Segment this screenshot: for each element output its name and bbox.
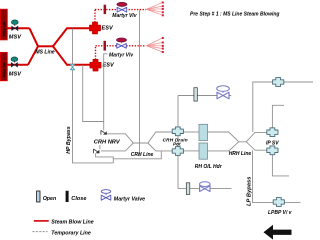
drain pot CRH 2 <box>172 147 183 156</box>
wire HP bypass spray drop <box>83 65 104 122</box>
check valve CRH NRV1 <box>101 130 107 134</box>
wire CRH blowdown <box>113 151 161 159</box>
svg-text:RH O/L Hdr: RH O/L Hdr <box>195 164 223 170</box>
svg-text:MSV: MSV <box>9 35 22 41</box>
HP bypass valve <box>70 64 74 69</box>
wire MS line common header <box>38 45 53 47</box>
svg-text:ESV: ESV <box>102 25 114 31</box>
legend temporary line <box>33 231 48 233</box>
svg-text:HRH Line: HRH Line <box>229 151 252 157</box>
wire CRH lower east <box>148 143 173 151</box>
wire MS line unit2 horizontal <box>7 64 28 66</box>
drain pot CRH 1 <box>172 127 183 136</box>
butterfly valve middle row <box>217 86 230 99</box>
LPBP valve <box>273 198 284 207</box>
ESV1 stop valve <box>90 22 101 34</box>
wire CRH lower to RH header <box>183 150 199 152</box>
wire LP bypass drop <box>253 150 274 202</box>
wire middle blowdown row <box>178 95 231 97</box>
wire HRH drain header <box>253 82 313 132</box>
wire NRV2 loop <box>96 153 114 163</box>
legend open symbol <box>37 191 40 202</box>
IP SV 2 <box>267 146 278 155</box>
ESV2 stop valve <box>90 59 101 71</box>
svg-text:Martyr Vlv: Martyr Vlv <box>109 52 134 58</box>
wire MS line unit2 diagonal up <box>28 46 38 65</box>
blow-out fan 2 <box>146 37 164 53</box>
wire bottom blowdown row <box>178 188 231 190</box>
svg-text:CRH Line: CRH Line <box>131 152 154 158</box>
wire IPSV top stub <box>272 105 284 128</box>
svg-text:ESV: ESV <box>103 63 115 69</box>
wire CRH lower <box>101 143 133 151</box>
wire HRH lower east <box>246 142 267 150</box>
wire CRH upper to RH header <box>183 131 199 133</box>
wire HRH lower <box>208 142 239 151</box>
wire IPSV bottom drop <box>272 155 289 176</box>
spool open middle row <box>194 88 197 101</box>
butterfly valve bottom row <box>200 182 211 192</box>
svg-text:IP SV: IP SV <box>266 140 279 146</box>
wire NRV2 stub <box>99 145 101 149</box>
martyr valve 1 <box>117 2 127 12</box>
svg-text:Close: Close <box>71 196 86 202</box>
svg-text:Final SH: Final SH <box>3 21 7 36</box>
valve MSV2 <box>11 57 18 67</box>
svg-text:Temporary Line: Temporary Line <box>51 231 91 237</box>
close spool 2 <box>104 41 107 51</box>
svg-text:Martyr Valve: Martyr Valve <box>114 197 145 203</box>
wire drain pot riser <box>177 96 179 189</box>
wire silencer riser <box>139 10 141 157</box>
svg-text:Pot: Pot <box>173 142 181 147</box>
spool open bottom row <box>186 183 190 195</box>
wire MS line branch down to ESV2 <box>53 46 90 65</box>
boiler Final SH box 1 <box>0 9 7 40</box>
blow-out fan 1 <box>146 2 164 17</box>
close spool 1 <box>104 5 107 14</box>
wire HP bypass drop <box>73 29 114 163</box>
boiler Final SH box 2 <box>0 53 7 81</box>
valve MSV1 <box>11 20 18 31</box>
svg-text:MSV: MSV <box>9 72 22 78</box>
IP SV 1 <box>267 128 278 137</box>
svg-text:Final SH: Final SH <box>3 62 7 77</box>
temporary blow line 1 (dotted red) <box>95 10 146 23</box>
wire HRH upper <box>208 132 267 142</box>
temporary blow line 2 (dotted red) <box>96 46 147 60</box>
RH outlet header 2 <box>199 143 208 159</box>
martyr valve 2 <box>117 38 127 48</box>
legend steam blow line <box>34 220 49 222</box>
wire LPBP outlet <box>284 201 300 203</box>
wire CRH upper <box>107 132 173 143</box>
wire NRV1 feed <box>104 54 108 130</box>
svg-text:MS Line: MS Line <box>36 50 55 56</box>
wire MS line unit1 horizontal <box>7 27 29 29</box>
svg-text:LPBP V/ v: LPBP V/ v <box>268 210 293 216</box>
RH outlet header 1 <box>199 124 208 140</box>
wire MS line branch up to ESV1 <box>53 28 89 46</box>
svg-text:HP Bypass: HP Bypass <box>66 126 72 154</box>
wire MS line unit1 diagonal down <box>30 28 39 46</box>
svg-text:Steam Blow Line: Steam Blow Line <box>51 219 93 225</box>
svg-text:LP Bypass: LP Bypass <box>246 176 252 206</box>
svg-text:Martyr Vlv: Martyr Vlv <box>112 13 137 19</box>
legend close symbol <box>66 191 69 202</box>
drain pot HRH <box>273 78 284 87</box>
arrow back <box>264 225 292 240</box>
check valve CRH NRV2 <box>94 149 100 153</box>
svg-text:Open: Open <box>43 196 57 202</box>
permanent gray pipes <box>73 10 314 203</box>
legend martyr valve symbol <box>101 190 111 201</box>
svg-text:CRH NRV: CRH NRV <box>94 139 121 145</box>
svg-text:Pre Step # 1 : MS Line Steam B: Pre Step # 1 : MS Line Steam Blowing <box>190 12 279 18</box>
